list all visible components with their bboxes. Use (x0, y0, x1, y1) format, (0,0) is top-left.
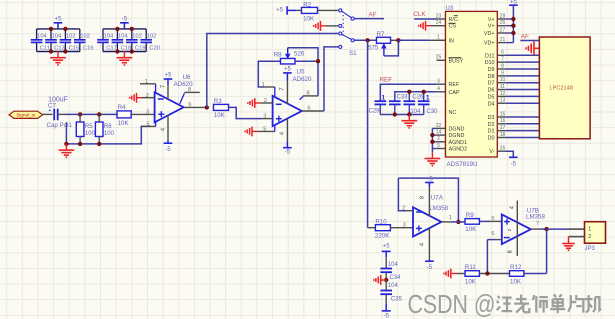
svg-text:10K: 10K (510, 279, 522, 286)
svg-text:NC: NC (449, 110, 457, 116)
svg-text:VD+: VD+ (484, 31, 495, 37)
svg-text:C7: C7 (48, 103, 56, 110)
svg-text:-5: -5 (511, 161, 517, 167)
svg-text:12: 12 (500, 91, 506, 97)
svg-text:V-: V- (489, 149, 494, 155)
svg-text:CS: CS (449, 24, 457, 30)
svg-text:7: 7 (501, 57, 504, 63)
svg-text:-5: -5 (427, 265, 433, 271)
svg-text:1: 1 (382, 95, 386, 102)
svg-text:+5: +5 (284, 67, 292, 73)
svg-text:D8: D8 (488, 74, 495, 80)
svg-text:16: 16 (500, 118, 506, 124)
svg-text:2: 2 (437, 136, 440, 142)
svg-text:VD+: VD+ (484, 41, 495, 47)
svg-text:AD620: AD620 (293, 76, 312, 83)
svg-text:2: 2 (402, 206, 405, 212)
svg-text:7: 7 (280, 87, 286, 90)
svg-text:7: 7 (536, 221, 539, 227)
svg-text:24: 24 (436, 20, 442, 26)
svg-text:AF: AF (521, 33, 529, 40)
svg-text:102: 102 (66, 34, 76, 40)
svg-text:5: 5 (437, 143, 440, 149)
svg-text:U7A: U7A (431, 194, 444, 201)
svg-text:104: 104 (104, 34, 114, 40)
svg-text:D1: D1 (488, 129, 495, 135)
svg-text:10K: 10K (118, 120, 130, 127)
svg-text:REF: REF (380, 77, 393, 84)
svg-text:102: 102 (132, 34, 142, 40)
svg-text:CLK: CLK (413, 11, 426, 18)
svg-text:LM358: LM358 (429, 205, 448, 212)
svg-text:100: 100 (104, 131, 115, 137)
svg-text:6: 6 (491, 231, 494, 237)
svg-text:IN: IN (449, 38, 454, 44)
svg-text:R5: R5 (85, 124, 93, 130)
svg-text:C29: C29 (369, 109, 381, 115)
svg-text:LM358: LM358 (526, 214, 545, 221)
svg-text:+5: +5 (383, 243, 391, 249)
svg-text:4: 4 (510, 206, 516, 209)
svg-text:-5: -5 (122, 17, 128, 23)
svg-text:Signal_in: Signal_in (16, 113, 35, 118)
svg-text:D9: D9 (488, 67, 495, 73)
svg-text:+5: +5 (276, 8, 284, 14)
svg-text:8: 8 (306, 90, 309, 96)
svg-text:15: 15 (500, 111, 506, 117)
svg-text:21: 21 (500, 37, 506, 43)
svg-text:5: 5 (491, 216, 494, 222)
svg-text:10K: 10K (303, 15, 315, 22)
svg-text:C33: C33 (397, 94, 409, 100)
svg-text:R7: R7 (377, 31, 385, 38)
svg-text:CSDN @: CSDN @ (408, 290, 496, 319)
svg-text:R8: R8 (274, 51, 282, 58)
svg-text:C19: C19 (135, 45, 146, 51)
svg-text:2: 2 (146, 93, 149, 99)
svg-text:AF: AF (369, 12, 377, 19)
svg-text:+5: +5 (426, 177, 434, 183)
svg-text:1: 1 (588, 227, 591, 233)
svg-text:CAP: CAP (449, 90, 460, 96)
svg-text:C17: C17 (106, 45, 117, 51)
svg-text:2: 2 (588, 234, 591, 240)
svg-text:3: 3 (146, 109, 149, 115)
svg-text:C13: C13 (54, 45, 65, 51)
svg-text:1: 1 (426, 95, 430, 102)
svg-text:28: 28 (500, 13, 506, 19)
svg-text:4: 4 (160, 128, 166, 131)
svg-text:+5: +5 (510, 0, 518, 6)
svg-text:8: 8 (501, 63, 504, 69)
svg-text:R4: R4 (118, 104, 126, 111)
svg-text:8: 8 (508, 250, 514, 253)
svg-text:2: 2 (264, 98, 267, 104)
svg-text:13: 13 (500, 98, 506, 104)
svg-text:4: 4 (437, 86, 440, 92)
svg-text:7: 7 (160, 85, 166, 88)
svg-text:D4: D4 (488, 101, 495, 107)
svg-text:104: 104 (52, 34, 62, 40)
svg-text:1: 1 (145, 79, 148, 85)
svg-text:220K: 220K (375, 232, 390, 239)
svg-text:5: 5 (147, 122, 150, 128)
svg-text:18: 18 (500, 132, 506, 138)
svg-text:100: 100 (85, 131, 96, 137)
svg-text:1: 1 (449, 215, 452, 221)
svg-text:9: 9 (501, 70, 504, 76)
svg-text:LPC2148: LPC2148 (550, 86, 573, 92)
svg-text:10K: 10K (465, 226, 477, 233)
svg-text:Cap Pol1: Cap Pol1 (47, 122, 73, 129)
svg-text:575: 575 (368, 44, 379, 51)
svg-text:3: 3 (403, 222, 406, 228)
svg-text:23: 23 (436, 13, 442, 19)
svg-text:C26: C26 (412, 94, 424, 100)
svg-text:6: 6 (307, 105, 310, 111)
svg-text:104: 104 (388, 283, 399, 289)
svg-text:D6: D6 (488, 88, 495, 94)
svg-text:10K: 10K (465, 279, 477, 286)
svg-text:102: 102 (80, 34, 90, 40)
svg-text:D3: D3 (488, 115, 495, 121)
svg-text:D7: D7 (488, 81, 495, 87)
svg-text:V+: V+ (488, 24, 495, 30)
svg-text:DGND: DGND (449, 126, 465, 132)
svg-text:104: 104 (410, 109, 421, 115)
svg-text:17: 17 (500, 125, 506, 131)
svg-text:5: 5 (263, 127, 266, 133)
svg-text:11: 11 (500, 84, 505, 90)
svg-text:R12: R12 (510, 264, 522, 271)
svg-text:BUSY: BUSY (449, 58, 464, 64)
svg-text:10K: 10K (214, 112, 226, 119)
svg-text:8: 8 (420, 196, 426, 199)
svg-text:U5: U5 (297, 69, 305, 76)
svg-text:D11: D11 (485, 53, 495, 59)
svg-text:C35: C35 (391, 297, 403, 303)
svg-text:C30: C30 (427, 109, 439, 115)
svg-text:10: 10 (500, 77, 506, 83)
svg-text:REF: REF (449, 82, 460, 88)
svg-text:R9: R9 (466, 212, 474, 219)
svg-text:3: 3 (437, 79, 440, 85)
svg-text:S1: S1 (349, 50, 357, 57)
svg-text:C15: C15 (69, 45, 80, 51)
svg-text:-5: -5 (285, 150, 291, 156)
svg-text:D5: D5 (488, 94, 495, 100)
svg-text:104: 104 (37, 34, 47, 40)
svg-text:25: 25 (436, 55, 442, 61)
svg-text:27: 27 (500, 27, 506, 33)
svg-text:6: 6 (188, 102, 191, 108)
svg-text:R2: R2 (303, 1, 311, 8)
svg-text:-5: -5 (384, 313, 390, 319)
svg-text:26: 26 (500, 20, 506, 26)
svg-text:+5: +5 (55, 17, 63, 23)
svg-text:C18: C18 (121, 45, 132, 51)
svg-text:DGND: DGND (449, 133, 465, 139)
svg-text:R/C: R/C (449, 17, 458, 23)
svg-text:+5: +5 (165, 73, 173, 79)
svg-text:1: 1 (262, 82, 265, 88)
svg-text:104: 104 (388, 262, 399, 268)
svg-text:U3: U3 (446, 6, 454, 12)
svg-text:3: 3 (263, 114, 266, 120)
svg-text:R6: R6 (104, 124, 112, 130)
svg-text:2: 2 (507, 228, 513, 231)
svg-text:-5: -5 (165, 147, 171, 153)
svg-text:JP3: JP3 (585, 246, 596, 252)
svg-text:4: 4 (280, 132, 286, 135)
svg-text:C16: C16 (83, 45, 94, 51)
svg-text:R11: R11 (465, 264, 476, 271)
svg-text:V+: V+ (488, 17, 495, 23)
svg-text:R3: R3 (214, 98, 222, 105)
svg-text:102: 102 (147, 34, 157, 40)
svg-text:6: 6 (501, 50, 504, 56)
svg-text:104: 104 (118, 34, 128, 40)
svg-text:D0: D0 (488, 136, 495, 142)
svg-text:AGND1: AGND1 (449, 140, 468, 146)
svg-text:C34: C34 (390, 275, 402, 281)
svg-text:R10: R10 (375, 219, 387, 226)
svg-text:4: 4 (420, 243, 426, 246)
svg-text:D2: D2 (488, 122, 495, 128)
svg-text:526: 526 (294, 50, 305, 57)
svg-text:AD620: AD620 (174, 81, 193, 88)
svg-text:C11: C11 (40, 45, 50, 51)
svg-text:D10: D10 (485, 60, 495, 66)
svg-text:C20: C20 (149, 45, 160, 51)
svg-text:AGND2: AGND2 (449, 147, 468, 153)
svg-text:1: 1 (437, 35, 440, 41)
svg-text:26: 26 (500, 145, 506, 151)
svg-text:ADS7819U: ADS7819U (447, 161, 478, 168)
